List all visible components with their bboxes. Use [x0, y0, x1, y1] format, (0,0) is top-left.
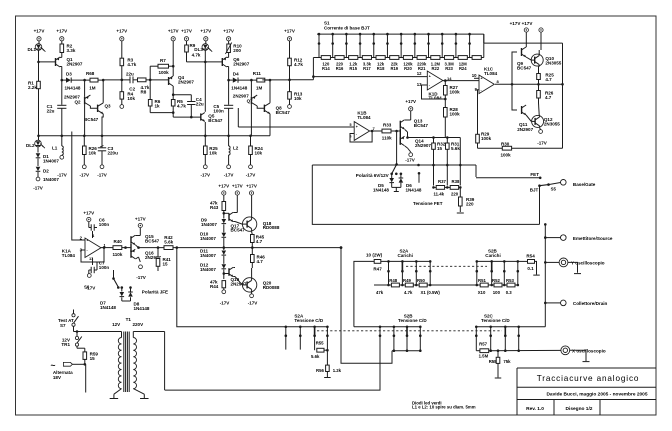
- svg-text:2N2907: 2N2907: [67, 61, 83, 66]
- svg-text:BC547: BC547: [208, 118, 223, 123]
- svg-text:R52: R52: [492, 278, 500, 283]
- svg-text:R15: R15: [349, 66, 357, 71]
- svg-text:100n: 100n: [99, 265, 110, 270]
- svg-text:Tensione C/D: Tensione C/D: [481, 318, 510, 323]
- svg-text:L1: L1: [52, 146, 58, 151]
- svg-text:22u: 22u: [126, 72, 134, 77]
- svg-text:+17V: +17V: [116, 29, 127, 34]
- svg-text:5.6k: 5.6k: [311, 354, 320, 359]
- svg-text:4.7k: 4.7k: [192, 53, 201, 58]
- svg-text:1N4007: 1N4007: [200, 267, 216, 272]
- svg-text:R43: R43: [210, 205, 219, 210]
- svg-text:11.4k: 11.4k: [434, 191, 445, 196]
- svg-text:1N4148: 1N4148: [65, 86, 81, 91]
- svg-text:1N4148: 1N4148: [100, 305, 116, 310]
- svg-text:2N2907: 2N2907: [517, 127, 533, 132]
- svg-text:R8: R8: [141, 89, 147, 94]
- svg-text:R47: R47: [373, 266, 382, 271]
- svg-text:R11: R11: [253, 71, 262, 76]
- svg-text:-17V: -17V: [57, 173, 67, 178]
- svg-text:3.3k: 3.3k: [67, 48, 76, 53]
- svg-text:L2: L2: [233, 146, 239, 151]
- svg-text:1.2k: 1.2k: [333, 368, 342, 373]
- svg-text:S5: S5: [551, 187, 557, 192]
- svg-text:4.7k: 4.7k: [404, 290, 413, 295]
- svg-text:2N3055: 2N3055: [545, 60, 561, 65]
- svg-text:2N3055: 2N3055: [544, 121, 560, 126]
- svg-text:100k: 100k: [501, 153, 512, 158]
- svg-text:4.7: 4.7: [256, 239, 263, 244]
- svg-text:-17V: -17V: [537, 141, 547, 146]
- svg-text:D4: D4: [233, 72, 239, 77]
- svg-text:+17V: +17V: [218, 183, 229, 188]
- svg-text:-17V: -17V: [220, 301, 230, 306]
- svg-text:R23: R23: [445, 66, 453, 71]
- svg-text:T1: T1: [126, 317, 132, 322]
- svg-text:R20: R20: [404, 66, 412, 71]
- svg-text:-17V: -17V: [33, 186, 43, 191]
- svg-text:TR1: TR1: [61, 342, 70, 347]
- svg-text:1N4007: 1N4007: [200, 236, 216, 241]
- svg-text:DL1: DL1: [28, 47, 37, 52]
- svg-text:4.7: 4.7: [257, 259, 264, 264]
- svg-text:5: 5: [350, 123, 352, 127]
- svg-text:-17V: -17V: [248, 301, 258, 306]
- svg-text:220V: 220V: [133, 322, 144, 327]
- svg-text:D3: D3: [66, 72, 72, 77]
- svg-text:S6: S6: [84, 284, 90, 289]
- svg-text:R40: R40: [114, 239, 123, 244]
- svg-text:Q2: Q2: [75, 99, 82, 104]
- svg-text:75k: 75k: [503, 359, 511, 364]
- svg-text:200: 200: [233, 48, 241, 53]
- svg-text:TL084: TL084: [357, 115, 371, 120]
- svg-text:Tensione C/D: Tensione C/D: [294, 318, 323, 323]
- svg-text:4.7k: 4.7k: [177, 103, 186, 108]
- svg-text:RD0088: RD0088: [263, 225, 280, 230]
- svg-text:1N4007: 1N4007: [43, 177, 59, 182]
- svg-text:-17V: -17V: [79, 173, 89, 178]
- svg-text:+17V: +17V: [168, 29, 179, 34]
- svg-text:R22: R22: [432, 66, 440, 71]
- svg-text:R33: R33: [383, 123, 392, 128]
- svg-text:R7: R7: [160, 58, 166, 63]
- svg-text:1N4148: 1N4148: [231, 86, 247, 91]
- svg-text:1N4007: 1N4007: [201, 222, 217, 227]
- svg-text:-17V: -17V: [224, 173, 234, 178]
- svg-text:Q3: Q3: [105, 103, 112, 108]
- svg-text:Emettitore/Source: Emettitore/Source: [573, 236, 613, 241]
- svg-text:-17V: -17V: [405, 158, 415, 163]
- svg-text:110k: 110k: [113, 252, 123, 257]
- svg-text:R50: R50: [417, 278, 425, 283]
- svg-text:S7: S7: [60, 323, 66, 328]
- svg-text:BC547: BC547: [517, 65, 532, 70]
- svg-text:TL084: TL084: [429, 96, 443, 101]
- svg-text:100k: 100k: [450, 111, 461, 116]
- svg-text:+17V: +17V: [405, 99, 416, 104]
- svg-text:X10: X10: [478, 290, 486, 295]
- svg-text:+: +: [356, 125, 358, 129]
- svg-text:1.5M: 1.5M: [479, 354, 489, 359]
- svg-text:TL084: TL084: [62, 253, 76, 258]
- svg-text:2N2907: 2N2907: [231, 281, 247, 286]
- svg-text:R19: R19: [390, 66, 398, 71]
- svg-text:0.1: 0.1: [527, 266, 534, 271]
- svg-text:10: 10: [472, 73, 477, 78]
- svg-text:47k: 47k: [376, 290, 384, 295]
- svg-text:+17V: +17V: [56, 29, 67, 34]
- svg-text:12: 12: [417, 71, 422, 76]
- svg-text:Y oscilloscopio: Y oscilloscopio: [571, 261, 605, 266]
- svg-text:R49: R49: [403, 278, 411, 283]
- svg-text:+17V: +17V: [135, 216, 146, 221]
- svg-text:R17: R17: [363, 66, 371, 71]
- svg-text:0.3: 0.3: [506, 290, 513, 295]
- svg-text:L1 e L2: 10 spire su diam. 5mm: L1 e L2: 10 spire su diam. 5mm: [412, 405, 476, 410]
- svg-text:FET: FET: [530, 172, 539, 177]
- svg-text:220: 220: [451, 191, 459, 196]
- svg-text:-17V: -17V: [97, 173, 107, 178]
- svg-text:BC547: BC547: [414, 123, 429, 128]
- svg-text:1N4148: 1N4148: [373, 187, 389, 192]
- svg-text:2N2907: 2N2907: [178, 79, 194, 84]
- svg-text:+17V: +17V: [181, 29, 192, 34]
- svg-text:100n: 100n: [99, 222, 110, 227]
- svg-text:X1 (0.5W): X1 (0.5W): [421, 290, 441, 295]
- svg-text:+17V: +17V: [246, 183, 257, 188]
- svg-text:15: 15: [163, 261, 169, 266]
- svg-text:BC547: BC547: [84, 117, 99, 122]
- svg-text:14: 14: [447, 76, 452, 81]
- svg-text:Tensione FET: Tensione FET: [413, 201, 443, 206]
- svg-text:+17V: +17V: [200, 29, 211, 34]
- svg-text:220: 220: [466, 201, 474, 206]
- svg-text:+: +: [87, 238, 89, 242]
- svg-text:22u: 22u: [47, 108, 55, 113]
- svg-text:R48: R48: [389, 278, 397, 283]
- svg-text:1k: 1k: [155, 103, 161, 108]
- svg-text:BC547: BC547: [145, 238, 160, 243]
- svg-text:R58: R58: [489, 359, 497, 364]
- svg-text:4.7k: 4.7k: [294, 62, 303, 67]
- svg-text:R53: R53: [506, 278, 514, 283]
- svg-text:-17V: -17V: [246, 173, 256, 178]
- svg-text:BJT: BJT: [530, 187, 539, 192]
- svg-text:4.7: 4.7: [545, 77, 552, 82]
- svg-text:10 (2W): 10 (2W): [366, 253, 383, 258]
- svg-text:Polarità 6V/12V: Polarità 6V/12V: [356, 173, 389, 178]
- svg-text:R55: R55: [316, 341, 324, 346]
- svg-text:DL3: DL3: [194, 47, 203, 52]
- svg-text:R68: R68: [86, 71, 95, 76]
- svg-text:TL084: TL084: [484, 71, 498, 76]
- svg-text:18V: 18V: [53, 375, 61, 380]
- svg-text:+: +: [429, 75, 431, 79]
- svg-text:R9: R9: [190, 43, 196, 48]
- svg-text:R57: R57: [479, 341, 487, 346]
- svg-text:R16: R16: [336, 66, 344, 71]
- svg-text:1M: 1M: [256, 86, 263, 91]
- svg-text:R51: R51: [478, 278, 486, 283]
- svg-text:DL2: DL2: [26, 143, 35, 148]
- svg-text:+17V: +17V: [284, 29, 295, 34]
- svg-text:15: 15: [437, 146, 443, 151]
- svg-text:100k: 100k: [450, 89, 461, 94]
- svg-text:10k: 10k: [255, 150, 263, 155]
- svg-text:R56: R56: [316, 368, 324, 373]
- svg-text:100k: 100k: [481, 136, 492, 141]
- svg-text:Rev. 1.0: Rev. 1.0: [526, 406, 544, 412]
- svg-text:RD0088: RD0088: [263, 285, 280, 290]
- svg-text:R38: R38: [452, 179, 460, 184]
- svg-text:10k: 10k: [127, 96, 135, 101]
- svg-text:4.7k: 4.7k: [127, 62, 136, 67]
- svg-text:Polarità JFE: Polarità JFE: [142, 289, 168, 294]
- svg-text:100n: 100n: [213, 108, 224, 113]
- svg-text:100k: 100k: [159, 70, 170, 75]
- svg-text:R30: R30: [501, 141, 510, 146]
- svg-text:R54: R54: [526, 253, 535, 258]
- svg-text:BC547: BC547: [276, 110, 291, 115]
- svg-text:1N4007: 1N4007: [43, 158, 59, 163]
- svg-text:R37: R37: [438, 179, 446, 184]
- svg-text:X oscilloscopio: X oscilloscopio: [572, 349, 606, 354]
- svg-text:Collettore/Drain: Collettore/Drain: [573, 301, 608, 306]
- svg-text:Carichi: Carichi: [485, 253, 500, 258]
- svg-text:12V: 12V: [112, 322, 120, 327]
- svg-text:+17V: +17V: [83, 210, 94, 215]
- svg-text:C2: C2: [129, 87, 135, 92]
- svg-text:~: ~: [51, 360, 56, 370]
- svg-text:+17V: +17V: [34, 29, 45, 34]
- svg-text:+17V: +17V: [232, 183, 243, 188]
- svg-text:Tracciacurve analogico: Tracciacurve analogico: [537, 374, 640, 383]
- svg-text:D2: D2: [43, 169, 49, 174]
- svg-text:4.7: 4.7: [545, 95, 552, 100]
- svg-text:1N4007: 1N4007: [200, 253, 216, 258]
- svg-text:R14: R14: [322, 66, 330, 71]
- svg-text:R24: R24: [459, 66, 467, 71]
- svg-text:R44: R44: [210, 284, 219, 289]
- svg-text:100: 100: [493, 290, 501, 295]
- svg-text:15: 15: [90, 356, 96, 361]
- svg-text:Davide Bucci, maggio 2005 - no: Davide Bucci, maggio 2005 - novembre 200…: [546, 391, 647, 397]
- svg-text:Disegno 1/2: Disegno 1/2: [566, 406, 593, 412]
- svg-text:R18: R18: [377, 66, 385, 71]
- svg-text:+17V +17V: +17V +17V: [510, 21, 533, 26]
- svg-text:5.6k: 5.6k: [164, 239, 173, 244]
- svg-text:Tensione C/D: Tensione C/D: [398, 318, 427, 323]
- svg-text:5.6k: 5.6k: [451, 146, 460, 151]
- svg-text:Base/Gate: Base/Gate: [573, 182, 596, 187]
- svg-text:Corrente di base BJT: Corrente di base BJT: [324, 25, 370, 30]
- svg-text:BC547: BC547: [231, 228, 246, 233]
- svg-text:2N2907: 2N2907: [233, 61, 249, 66]
- svg-text:-17V: -17V: [136, 275, 146, 280]
- svg-text:1N4148: 1N4148: [134, 306, 150, 311]
- svg-text:+: +: [481, 77, 483, 81]
- svg-text:1M: 1M: [89, 86, 96, 91]
- svg-text:-17V: -17V: [200, 173, 210, 178]
- svg-text:10k: 10k: [89, 150, 97, 155]
- svg-text:10k: 10k: [209, 150, 217, 155]
- svg-text:+17V: +17V: [223, 29, 234, 34]
- svg-text:Carichi: Carichi: [398, 253, 413, 258]
- svg-text:220u: 220u: [108, 150, 119, 155]
- svg-text:2.2k: 2.2k: [28, 85, 37, 90]
- svg-text:1N4148: 1N4148: [406, 187, 422, 192]
- svg-text:10k: 10k: [294, 96, 302, 101]
- svg-text:22u: 22u: [196, 101, 204, 106]
- svg-text:110k: 110k: [382, 136, 392, 141]
- svg-text:2N2907: 2N2907: [415, 143, 431, 148]
